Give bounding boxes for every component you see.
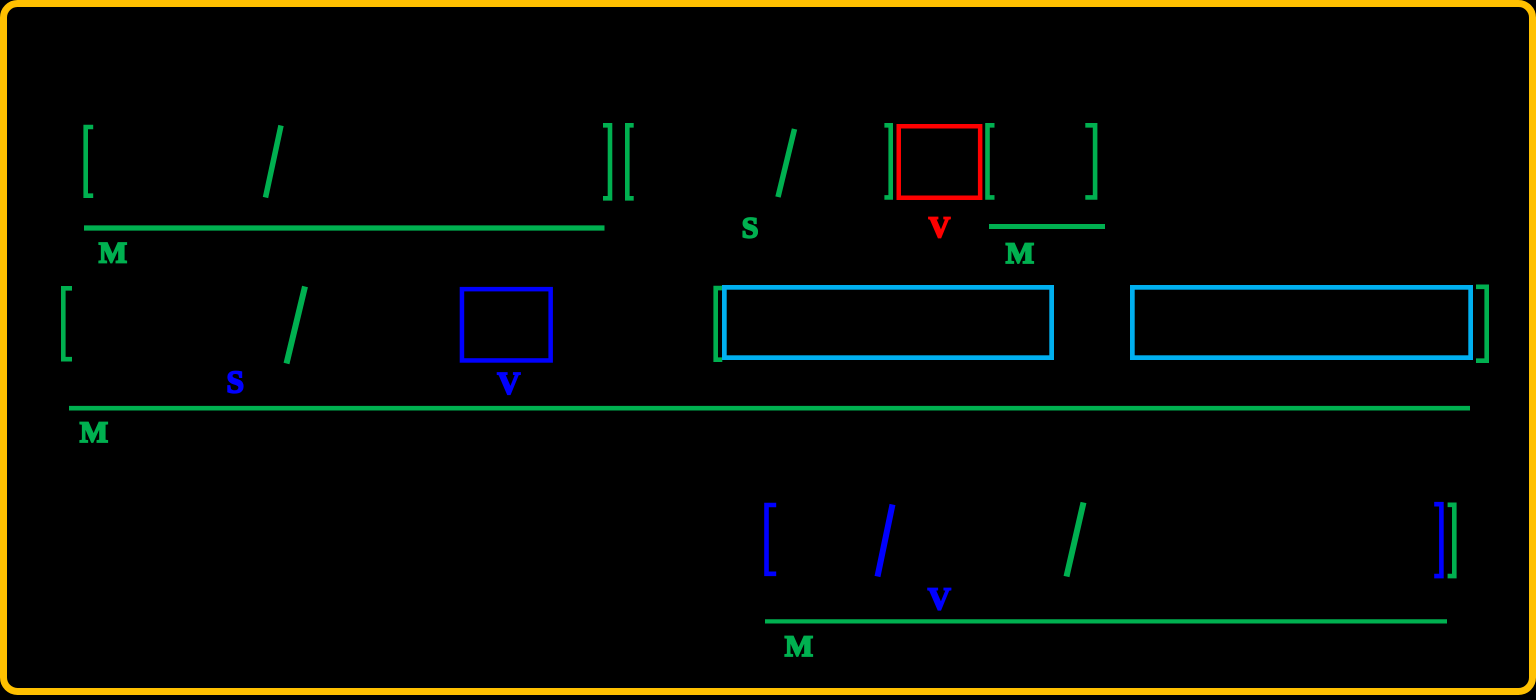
row2: cyan box 2 (1132, 287, 1470, 357)
row2: cyan box 1 (724, 287, 1051, 357)
svg-text:V: V (497, 365, 520, 401)
row1: red box V (899, 126, 980, 198)
svg-text:M: M (99, 236, 127, 269)
row2: green open bracket G (63, 288, 72, 359)
svg-text:S: S (227, 365, 245, 400)
row2: green open bracket H (716, 288, 723, 360)
svg-text:V: V (929, 211, 951, 244)
row1: green slash S1 (266, 126, 282, 198)
row2: green slash S3 (287, 287, 306, 364)
row1: green slash S2 (778, 129, 795, 197)
row1: green close bracket B (603, 125, 610, 198)
svg-text:S: S (742, 212, 759, 245)
row3: blue open bracket J (767, 505, 777, 574)
row3: blue close bracket K (1434, 504, 1441, 576)
svg-text:M: M (80, 416, 108, 449)
row1: green close bracket F (1085, 125, 1095, 197)
row3: green close bracket L (1448, 505, 1455, 576)
svg-text:M: M (1006, 237, 1034, 270)
row3: green underline U4 (765, 619, 1447, 623)
row1: green open bracket A (86, 127, 94, 196)
row2: long green underline U3 (69, 406, 1470, 411)
row1: green close bracket D (884, 125, 890, 197)
row1: green underline U2 (989, 224, 1105, 229)
row1: green open bracket E (988, 125, 995, 197)
row3: green slash S5 (1067, 503, 1084, 577)
row2: green close bracket I (1476, 287, 1487, 361)
svg-text:M: M (785, 630, 813, 663)
row1: green underline U1 (84, 225, 605, 230)
row3: blue slash S4 (878, 505, 893, 577)
svg-text:V: V (928, 580, 951, 616)
row1: green open bracket C (627, 125, 633, 198)
row2: blue box V (462, 289, 551, 360)
